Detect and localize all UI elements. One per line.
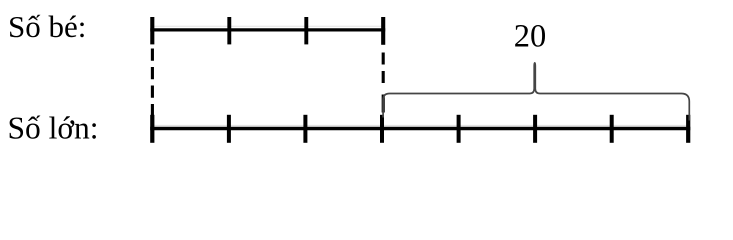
tick: top bar 1/3	[227, 17, 231, 44]
tick: top bar 2/3	[304, 17, 308, 44]
brace over last 4 units, labelled 20	[383, 63, 689, 121]
tick: bottom bar 2	[303, 115, 307, 143]
wire: left dashed vertical	[151, 49, 154, 117]
svg-text:Số bé:: Số bé:	[8, 9, 86, 44]
svg-text:20: 20	[514, 19, 547, 55]
ghost scan line above bottom bar	[152, 124, 689, 126]
tick: bottom bar right end	[686, 115, 690, 143]
wire: dark segment where brace end overlaps dashes	[382, 95, 385, 113]
tick: bottom bar 1	[227, 115, 231, 143]
tick: bottom bar 0	[150, 115, 154, 143]
tick: top bar right end	[381, 17, 385, 45]
tick: bottom bar 5	[533, 115, 537, 143]
wire: bottom bar line (So lon)	[150, 127, 690, 131]
tick: top bar left end	[150, 17, 154, 44]
tick: bottom bar 4	[457, 115, 461, 143]
ghost scan line above top bar	[153, 25, 384, 27]
wire: right dashed vertical	[382, 53, 385, 85]
svg-text:Số lớn:: Số lớn:	[8, 111, 99, 146]
wire: top bar line (So be)	[150, 28, 385, 31]
tick: bottom bar 6	[610, 115, 614, 143]
tick: bottom bar 3	[380, 115, 384, 143]
